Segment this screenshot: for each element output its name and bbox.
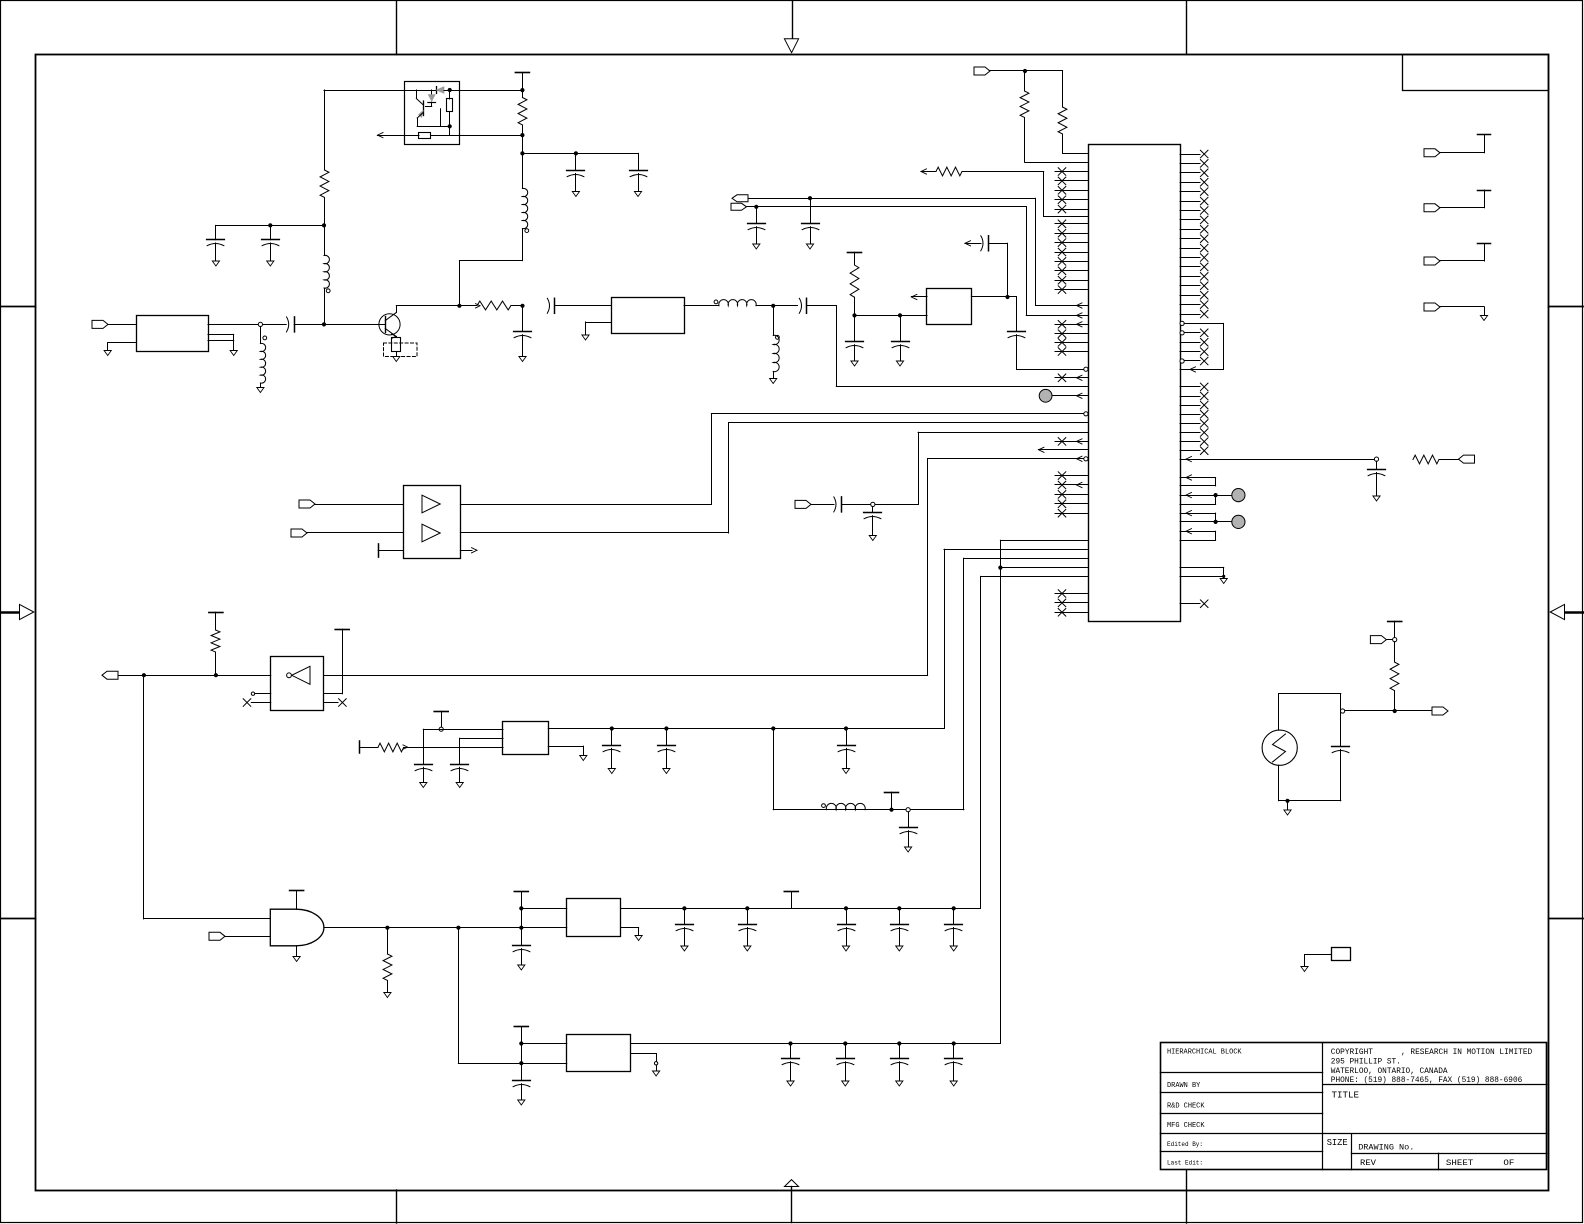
node C26 tap (745, 906, 749, 910)
IC U5 left NC pin y=475.6 (1055, 475, 1088, 477)
capacitor C2 (638, 153, 640, 170)
node C28 tap (897, 906, 901, 910)
resistor R1 (522, 90, 524, 97)
IC U5 right NC pin 16 (1180, 295, 1200, 297)
connector J2 (974, 67, 990, 75)
svg-text:HIERARCHICAL BLOCK: HIERARCHICAL BLOCK (1167, 1048, 1242, 1056)
test point TP3 gray (1039, 389, 1052, 402)
node P7 (889, 808, 893, 812)
filter block FB5 (567, 899, 621, 937)
node R10 bottom (214, 673, 218, 677)
node C9 tap (808, 196, 812, 200)
svg-text:REV: REV (1360, 1158, 1377, 1168)
wire to Q1 base (324, 324, 385, 326)
capacitor C4 (270, 225, 272, 239)
title block frame (1161, 1043, 1547, 1170)
title block left rows (1160, 1072, 1322, 1074)
svg-text:DRAWN BY: DRAWN BY (1167, 1082, 1201, 1090)
connector J11 (1424, 204, 1440, 212)
wire FB2 out (684, 305, 719, 307)
IC U5 right NC pin lower 3 (1180, 405, 1200, 407)
capacitor C11 series with open end (965, 241, 971, 246)
capacitor C19 (459, 738, 461, 764)
node P1/U1 (520, 88, 524, 92)
wire net B riser (1026, 207, 1028, 316)
diode D1 inside U1 (436, 87, 438, 94)
inverter U3 box (271, 657, 324, 711)
node shunt L3 (258, 322, 262, 326)
node C1 tap (574, 151, 578, 155)
IC U5 right NC pin 11 (1180, 248, 1200, 250)
opto-isolator U1 box (405, 82, 460, 145)
power tap P3 (209, 612, 223, 614)
IC U5 right NC pin 10 (1180, 238, 1200, 240)
capacitor C3 (215, 225, 217, 239)
connector J10 (1424, 149, 1440, 157)
wire U1 bottom to R1 (460, 135, 523, 137)
wire R1 to node C1 (522, 135, 524, 153)
capacitor C8 series (799, 298, 801, 313)
IC U5 left NC pin y=209.1 (1055, 209, 1088, 211)
wire U4 output (324, 927, 567, 929)
node C6 tap (520, 304, 524, 308)
wire FB3 output rail (548, 728, 944, 730)
IC U5 left NC pin y=485.0 (1055, 484, 1088, 486)
filter block FB2 (612, 298, 685, 334)
node C4 tap (268, 223, 272, 227)
inductor L5 shunt (773, 306, 775, 336)
power tap P7 (885, 792, 899, 794)
node R5 top (1023, 69, 1027, 73)
node R11 tap (385, 926, 389, 930)
IC U5 left NC pin y=324.3 (1055, 324, 1088, 326)
IC U5 left NC pin y=171.5 (1055, 171, 1088, 173)
IC U5 left NC pin y=593.5 (1055, 593, 1088, 595)
left border tick at y=918 (1, 918, 36, 920)
capacitor C20 (611, 729, 613, 746)
IC U5 right NC pin lower 1 (1180, 386, 1200, 388)
wire R7 to IC (1043, 172, 1045, 217)
AND gate U4 (270, 909, 324, 946)
IC U5 right NC pin lower 2 (1180, 396, 1200, 398)
IC U5 body (1089, 145, 1181, 622)
IC U5 left NC pin y=280.2 (1055, 280, 1088, 282)
IC U5 right NC pin 9 (1180, 229, 1200, 231)
wire riser to row2 (458, 928, 460, 1063)
IC U5 left NC pin y=351.5 (1055, 351, 1088, 353)
IC U5 right NC pin lower 8 (1180, 450, 1200, 452)
pin NC U3 right low (324, 702, 338, 704)
IC U5 right NC pin y=603.7 (1180, 603, 1200, 605)
power tap P1 (515, 72, 529, 74)
node C15 tap (1374, 457, 1378, 461)
component B1 small box (1332, 948, 1351, 961)
svg-text:MFG CHECK: MFG CHECK (1167, 1122, 1205, 1130)
power tap P4 (290, 890, 304, 892)
node R2 bottom rail (322, 223, 326, 227)
IC U5 left NC pin y=602.9 (1055, 602, 1088, 604)
resistor R5 (1024, 71, 1026, 91)
wire input riser x324 (324, 90, 326, 170)
wire J2 to resistors (989, 70, 1063, 72)
node U1 internal A (448, 88, 452, 92)
pin tee U2 bottom-left (378, 544, 380, 557)
capacitor C29 (953, 908, 955, 924)
revision box top right (1403, 55, 1549, 91)
bottom border tick at x=1187 (1186, 1170, 1188, 1223)
resistor U1-R internal right (449, 90, 451, 99)
capacitor C9 (810, 198, 812, 223)
IC U5 left NC pin y=270.8 (1055, 270, 1088, 272)
resistor R3 emitter (396, 337, 398, 338)
wire U2 outA to IC (460, 504, 711, 506)
inductor L4 series (714, 300, 718, 304)
test point TP1 gray (1214, 493, 1218, 497)
svg-text:R&D CHECK: R&D CHECK (1167, 1102, 1205, 1110)
wire net B bus (747, 206, 1027, 208)
IC U5 right NC pin 14 (1180, 276, 1200, 278)
connector J5 (795, 500, 811, 508)
node R13 bottom (1393, 709, 1397, 713)
pin stub U3 left mid (251, 692, 254, 695)
wire row2 riser to IC pins 540/567 (1000, 540, 1002, 1043)
wire L2 to base node (324, 288, 326, 324)
IC U5 boxed NC pin y=342.2 (1180, 342, 1200, 344)
node row2 riser (456, 926, 460, 930)
power tap P9 (784, 891, 798, 893)
node C34 tap (952, 1041, 956, 1045)
wire U1 internal bottom out (450, 135, 460, 137)
IC U5 right NC pin 1 (1180, 154, 1200, 156)
wire L1 to collector node (522, 229, 524, 261)
wire rail riser to IC pin 549 (944, 549, 946, 728)
capacitor C34 (953, 1044, 955, 1059)
IC U5 left NC pin y=494.4 (1055, 494, 1088, 496)
IC U5 right NC pin lower 6 (1180, 432, 1200, 434)
capacitor C28 (899, 908, 901, 924)
power tap P11 (1388, 621, 1402, 623)
IC U5 left NC pin y=612.3 (1055, 612, 1088, 614)
diode D2 inside U1 (vertical) (431, 90, 433, 95)
capacitor C14 (900, 315, 902, 341)
dashed package outline Q1 (384, 343, 418, 357)
resistor R6 (1062, 71, 1064, 107)
IC U5 right NC pin 5 (1180, 191, 1200, 193)
pin arrow U2 bottom-right (460, 550, 472, 552)
wire Q1 collector (396, 305, 459, 307)
capacitor C5 series (287, 317, 289, 332)
wire L6 rail (773, 809, 964, 811)
title block right rows (1323, 1084, 1547, 1086)
svg-text:TITLE: TITLE (1332, 1089, 1360, 1100)
wire net A bus (748, 198, 1036, 200)
connector J1 RF input (92, 320, 108, 328)
bottom center zone arrow (785, 1180, 799, 1187)
node C33 tap (897, 1041, 901, 1045)
IC U5 right NC pin lower 5 (1180, 423, 1200, 425)
svg-text:DRAWING No.: DRAWING No. (1358, 1143, 1414, 1153)
buffer U2 gate B (422, 524, 440, 542)
title block divider main (1322, 1043, 1324, 1170)
IC U5 left NC pin y=242.6 (1055, 242, 1088, 244)
wire U1 top feed (324, 90, 405, 92)
photo-transistor Q4 inside U1 (416, 90, 418, 99)
wire C12 to IC (1017, 369, 1084, 371)
capacitor C21 (666, 729, 668, 746)
filter block FB3 (503, 722, 549, 755)
IC U5 boxed NC pin y=361.0 (1180, 359, 1184, 363)
IC U5 left NC pin y=180.9 (1055, 180, 1088, 182)
IC U5 right NC pin 12 (1180, 257, 1200, 259)
connector J13 (1424, 303, 1440, 311)
inductor L1 (522, 153, 524, 188)
filter block FB1 (137, 316, 209, 352)
IC U5 left NC pin y=503.8 (1055, 503, 1088, 505)
net flag B (right) (731, 203, 747, 210)
resistor R4 (459, 305, 477, 307)
node C27 tap (844, 906, 848, 910)
capacitor C22 (846, 729, 848, 746)
svg-text:Edited By:: Edited By: (1167, 1141, 1203, 1148)
IC U5 right long net wire (1180, 459, 1377, 461)
IC U5 right NC pin 4 (1180, 182, 1200, 184)
ground pin FB1 right (208, 334, 234, 336)
inductor L2 (324, 225, 326, 255)
inductor L3 shunt (260, 327, 262, 344)
wire drop to L6 rail (773, 729, 775, 810)
wire FB3 top-left (423, 729, 503, 731)
pin U3 right tee (324, 693, 343, 695)
node C17 tap (871, 502, 875, 506)
wire row1 rail in (521, 908, 566, 910)
bottom border tick at x=396 (396, 1190, 398, 1223)
top center zone arrow (792, 1, 794, 39)
right center zone arrow (1565, 611, 1584, 614)
transistor Q1 (379, 314, 400, 335)
IC U5 right NC pin 18 (1180, 314, 1200, 316)
connector J12 (1424, 257, 1440, 265)
connector J9 (1432, 707, 1448, 715)
pin arrow FB4 left (911, 294, 917, 299)
capacitor C35 in crystal loop (1340, 694, 1342, 747)
IC U5 left NC pin y=261.4 (1055, 261, 1088, 263)
capacitor C10 (756, 207, 758, 224)
IC U5 right NC pin 17 (1180, 304, 1200, 306)
node C14 tap (898, 313, 902, 317)
svg-text:SHEET: SHEET (1446, 1158, 1473, 1168)
capacitor C32 (845, 1044, 847, 1059)
resistor R9 (1413, 455, 1439, 464)
net flag F5 (1459, 455, 1475, 463)
node J8 (1393, 638, 1397, 642)
power tap P5 (434, 711, 448, 713)
inductor L6 (822, 804, 826, 808)
resistor R8 (850, 265, 859, 297)
svg-text:OF: OF (1503, 1158, 1514, 1168)
connector J6 output flag (102, 671, 118, 679)
crystal Y1 (1279, 693, 1341, 695)
top border tick at x=396 (396, 1, 398, 55)
svg-text:PHONE: (519) 888-7465, FAX (51: PHONE: (519) 888-7465, FAX (519) 888-690… (1331, 1075, 1523, 1085)
connector J8 (1370, 636, 1386, 644)
IC U5 right NC pin 2 (1180, 163, 1200, 165)
node FB3 supply (439, 727, 443, 731)
IC U5 left NC pin y=342.4 (1055, 342, 1088, 344)
IC U5 left NC pin y=223.8 (1055, 223, 1088, 225)
IC U5 left NC pin y=289.6 (1055, 289, 1088, 291)
capacitor C16 series (834, 497, 836, 512)
IC U5 left NC pin y=190.3 (1055, 190, 1088, 192)
wire riser J6 to AND input (143, 675, 145, 919)
capacitor C27 (846, 908, 848, 924)
buffer U2 box (404, 486, 461, 559)
resistor R13 (1394, 642, 1396, 662)
node C29 tap (952, 906, 956, 910)
terminal stub P6 (359, 741, 361, 753)
wire U3 through (324, 675, 928, 677)
wire crystal out (1343, 710, 1432, 712)
wire L6 riser to IC pin 558 (963, 558, 965, 810)
right border tick at y=306 (1549, 306, 1584, 308)
IC U5 right NC pin 3 (1180, 172, 1200, 174)
wire row1 riser to IC pin 576 (980, 576, 982, 908)
capacitor C31 (790, 1044, 792, 1059)
connector J3 (299, 500, 315, 508)
svg-text:Last Edit:: Last Edit: (1167, 1159, 1203, 1166)
capacitor C7 series (547, 298, 549, 313)
connector J4 (291, 529, 307, 537)
wire J6 bus (118, 675, 271, 677)
filter block FB4 (927, 289, 972, 325)
ground stub FB3 right (548, 746, 583, 748)
wire row2 rail in (521, 1043, 566, 1045)
wire FB4 out (971, 296, 1016, 298)
node riser to AND (142, 673, 146, 677)
wire C8 to IC pin (807, 305, 836, 307)
node R1 bottom (520, 133, 524, 137)
IC U5 right stub loop 4 (1180, 531, 1216, 533)
node P8 row1b (519, 926, 523, 930)
IC U5 right NC pin 8 (1180, 219, 1200, 221)
node P10 row2 (519, 1041, 523, 1045)
capacitor C26 (747, 908, 749, 924)
inverter U3 gate (292, 666, 310, 684)
ground pin FB1 left (108, 342, 136, 344)
node C23 tap (906, 808, 910, 812)
node collector bias (457, 304, 461, 308)
wire FB4 in (855, 315, 928, 317)
IC U5 right stub loop 2 (1180, 495, 1216, 497)
net flag A (left) (732, 195, 748, 202)
capacitor C25 (684, 908, 686, 924)
IC U5 right NC pin lower 7 (1180, 441, 1200, 443)
capacitor C24 plates (513, 945, 531, 947)
pin NC U3 left low (243, 699, 251, 707)
node C11/FB4 (1005, 295, 1009, 299)
ground stub FB6 right (631, 1053, 656, 1055)
capacitor C13 (854, 315, 856, 341)
node C25 tap (682, 906, 686, 910)
node C10 tap (754, 205, 758, 209)
connector J7 (209, 932, 225, 940)
test point TP2 gray (1214, 520, 1218, 524)
wire U2 outB to IC (460, 532, 728, 534)
resistor R10 pullup (211, 630, 220, 652)
capacitor C30 plates (513, 1080, 531, 1082)
IC U5 right NC pin 7 (1180, 210, 1200, 212)
node C31 tap (788, 1041, 792, 1045)
top border tick at x=1186 (1186, 1, 1188, 55)
IC U5 left NC pin y=252.0 (1055, 252, 1088, 254)
right border tick at y=918 (1549, 918, 1584, 920)
wire U3 riser to IC (927, 459, 929, 675)
node P8 row1 (519, 906, 523, 910)
IC U5 left NC pin y=233.2 (1055, 233, 1088, 235)
node C32 tap (843, 1041, 847, 1045)
capacitor C15 (1376, 461, 1378, 469)
ground crystal (1285, 799, 1289, 803)
IC U5 right stub loop 1 (1180, 477, 1216, 479)
wire C19 to FB3 (460, 738, 503, 740)
capacitor C6 (522, 306, 524, 332)
wire decoupling rail (522, 153, 638, 155)
capacitor C33 (899, 1044, 901, 1059)
wire row1 rail (621, 908, 981, 910)
wire C11 down (1007, 243, 1009, 297)
node R8 bottom (852, 313, 856, 317)
node C20 tap (610, 726, 614, 730)
pin arrow left of U1 (378, 133, 384, 138)
IC U5 right NC pin lower 4 (1180, 414, 1200, 416)
left border tick at y=306 (1, 306, 36, 308)
buffer U2 gate A (422, 495, 440, 513)
IC U5 right ground pair (1180, 567, 1224, 569)
power tap P10 (514, 1026, 528, 1028)
power tap P8 (514, 891, 528, 893)
resistor R2 (320, 170, 329, 198)
node inductor drop (771, 726, 775, 730)
IC U5 right stub loop 3 (1180, 513, 1216, 515)
IC U5 right NC pin 13 (1180, 266, 1200, 268)
IC U5 right NC pin 15 (1180, 285, 1200, 287)
wire J5 net riser to IC (918, 432, 920, 504)
node shunt L5 (771, 304, 775, 308)
pin stub U4 bottom (296, 946, 298, 957)
resistor R12 (378, 743, 404, 752)
wire J1 to FB1 (108, 324, 136, 326)
resistor U1-R2 internal bottom (405, 135, 420, 137)
power tap P2 (848, 252, 862, 254)
wire U1 internal emitter loop (417, 126, 450, 128)
IC U5 left open-arrow stub y=449.8 (1039, 447, 1045, 452)
IC U5 left NC pin y=377.8 (1055, 377, 1088, 379)
IC U5 boxed NC pin y=332.8 (1180, 331, 1184, 335)
IC U5 left NC pin y=199.7 (1055, 199, 1088, 201)
capacitor C23 (908, 812, 910, 828)
ground pin FB2 left (586, 322, 612, 324)
IC U5 right pin-group box (1180, 321, 1184, 325)
node base (322, 322, 326, 326)
svg-text:SIZE: SIZE (1327, 1137, 1348, 1148)
IC U5 left NC pin y=333.7 (1055, 333, 1088, 335)
IC U5 left NC pin y=441.4 (1055, 441, 1088, 443)
filter block FB6 (567, 1035, 631, 1072)
node P10 row2b (519, 1061, 523, 1065)
IC U5 left NC pin y=513.2 (1055, 513, 1088, 515)
capacitor C17 (872, 507, 874, 513)
node C21 tap (664, 726, 668, 730)
resistor R11 to ground (387, 928, 389, 954)
